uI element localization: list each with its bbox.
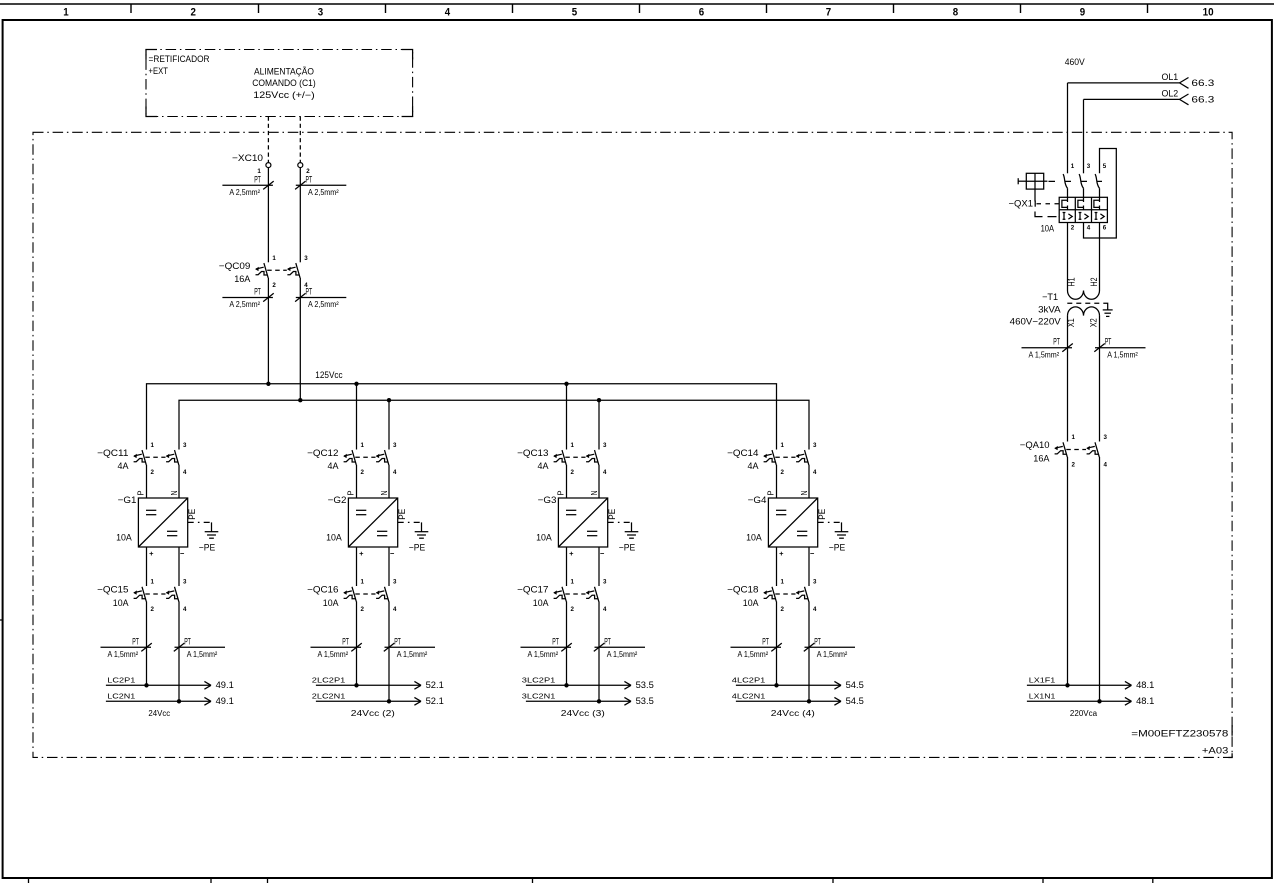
- svg-text:+EXT: +EXT: [149, 66, 169, 76]
- svg-text:1: 1: [781, 579, 785, 586]
- svg-text:4: 4: [393, 469, 397, 476]
- svg-text:4LC2P1: 4LC2P1: [732, 675, 766, 684]
- svg-text:1: 1: [1072, 434, 1076, 441]
- svg-text:X2: X2: [1089, 318, 1099, 327]
- svg-text:4: 4: [1104, 461, 1108, 468]
- svg-text:PT: PT: [254, 287, 261, 297]
- svg-text:3: 3: [318, 6, 323, 18]
- svg-text:A 1,5mm²: A 1,5mm²: [817, 650, 848, 659]
- svg-text:+A03: +A03: [1202, 745, 1228, 755]
- svg-text:3: 3: [304, 255, 308, 262]
- svg-text:1: 1: [63, 6, 68, 18]
- svg-text:PT: PT: [1053, 337, 1060, 347]
- svg-text:2: 2: [361, 469, 365, 476]
- svg-text:−QC14: −QC14: [727, 448, 758, 458]
- svg-text:125Vcc: 125Vcc: [315, 370, 343, 380]
- svg-text:1: 1: [151, 442, 155, 449]
- svg-text:66.3: 66.3: [1191, 78, 1214, 88]
- svg-text:A 1,5mm²: A 1,5mm²: [397, 650, 428, 659]
- svg-text:16A: 16A: [1033, 453, 1050, 463]
- svg-text:4: 4: [183, 606, 187, 613]
- svg-text:24Vcc (3): 24Vcc (3): [561, 709, 606, 718]
- svg-text:−: −: [180, 549, 185, 558]
- svg-text:−QC17: −QC17: [517, 585, 548, 595]
- svg-text:OL1: OL1: [1162, 72, 1179, 82]
- svg-text:49.1: 49.1: [216, 696, 234, 706]
- svg-text:2: 2: [272, 282, 276, 289]
- svg-text:−QC18: −QC18: [727, 585, 758, 595]
- svg-text:−QC11: −QC11: [97, 448, 128, 458]
- svg-text:A 1,5mm²: A 1,5mm²: [108, 650, 139, 659]
- svg-text:ALIMENTAÇÃO: ALIMENTAÇÃO: [254, 67, 314, 77]
- svg-text:−G4: −G4: [748, 495, 767, 505]
- svg-text:4: 4: [183, 469, 187, 476]
- svg-text:PT: PT: [306, 174, 313, 184]
- svg-text:PT: PT: [184, 636, 191, 646]
- svg-text:48.1: 48.1: [1136, 696, 1154, 706]
- svg-text:PT: PT: [814, 636, 821, 646]
- svg-text:PT: PT: [342, 636, 349, 646]
- svg-text:5: 5: [572, 6, 577, 18]
- svg-text:3: 3: [1087, 163, 1091, 170]
- svg-text:A 1,5mm²: A 1,5mm²: [738, 650, 769, 659]
- svg-text:A 1,5mm²: A 1,5mm²: [528, 650, 559, 659]
- svg-text:220Vca: 220Vca: [1070, 709, 1098, 718]
- svg-text:4: 4: [813, 469, 817, 476]
- svg-text:1: 1: [151, 579, 155, 586]
- svg-text:PT: PT: [762, 636, 769, 646]
- svg-text:10A: 10A: [743, 598, 760, 608]
- svg-text:10A: 10A: [326, 532, 343, 542]
- svg-text:6: 6: [699, 6, 704, 18]
- svg-text:10A: 10A: [746, 532, 763, 542]
- svg-text:4A: 4A: [538, 461, 550, 471]
- svg-text:3: 3: [393, 442, 397, 449]
- svg-text:1: 1: [361, 442, 365, 449]
- svg-text:1: 1: [571, 442, 575, 449]
- svg-text:6: 6: [1103, 225, 1107, 232]
- svg-text:66.3: 66.3: [1191, 94, 1214, 104]
- svg-text:−QC15: −QC15: [97, 585, 128, 595]
- svg-text:−PE: −PE: [199, 543, 216, 553]
- svg-text:A 1,5mm²: A 1,5mm²: [187, 650, 218, 659]
- svg-text:COMANDO (C1): COMANDO (C1): [252, 78, 316, 88]
- svg-text:8: 8: [953, 6, 958, 18]
- svg-text:3: 3: [603, 579, 607, 586]
- svg-text:−PE: −PE: [619, 543, 636, 553]
- svg-text:4: 4: [445, 6, 451, 18]
- svg-text:1: 1: [272, 255, 276, 262]
- svg-text:PT: PT: [306, 287, 313, 297]
- svg-text:24Vcc: 24Vcc: [148, 709, 170, 718]
- svg-text:4A: 4A: [328, 461, 340, 471]
- svg-text:24Vcc (2): 24Vcc (2): [351, 709, 396, 718]
- svg-text:3kVA: 3kVA: [1038, 304, 1062, 314]
- svg-text:52.1: 52.1: [426, 696, 444, 706]
- svg-text:PT: PT: [254, 174, 261, 184]
- svg-text:2: 2: [571, 606, 575, 613]
- svg-text:52.1: 52.1: [426, 680, 444, 690]
- svg-text:1: 1: [1071, 163, 1075, 170]
- svg-text:2: 2: [781, 606, 785, 613]
- svg-text:A 2,5mm²: A 2,5mm²: [229, 300, 260, 309]
- svg-text:P: P: [556, 490, 565, 495]
- svg-text:−QC12: −QC12: [307, 448, 338, 458]
- svg-text:−PE: −PE: [829, 543, 846, 553]
- svg-text:1: 1: [781, 442, 785, 449]
- svg-text:10A: 10A: [116, 532, 133, 542]
- svg-text:9: 9: [1080, 6, 1085, 18]
- svg-text:P: P: [766, 490, 775, 495]
- svg-text:A 2,5mm²: A 2,5mm²: [308, 300, 339, 309]
- svg-text:2LC2N1: 2LC2N1: [312, 691, 346, 700]
- svg-text:10A: 10A: [323, 598, 340, 608]
- svg-text:2: 2: [781, 469, 785, 476]
- svg-text:2: 2: [361, 606, 365, 613]
- svg-text:460V−220V: 460V−220V: [1010, 316, 1062, 326]
- svg-text:+: +: [149, 549, 154, 558]
- svg-text:54.5: 54.5: [846, 680, 864, 690]
- svg-text:3: 3: [603, 442, 607, 449]
- svg-text:P: P: [136, 490, 145, 495]
- svg-text:−XC10: −XC10: [232, 153, 263, 163]
- svg-text:P: P: [346, 490, 355, 495]
- svg-text:A 2,5mm²: A 2,5mm²: [229, 188, 260, 197]
- svg-text:−QC16: −QC16: [307, 585, 338, 595]
- svg-text:1: 1: [361, 579, 365, 586]
- svg-text:10A: 10A: [1041, 223, 1055, 233]
- svg-text:LX1N1: LX1N1: [1029, 691, 1056, 700]
- svg-text:PT: PT: [1105, 337, 1112, 347]
- svg-text:7: 7: [826, 6, 831, 18]
- svg-text:PE: PE: [397, 509, 407, 520]
- svg-text:−QC09: −QC09: [219, 261, 251, 271]
- svg-text:3LC2P1: 3LC2P1: [522, 675, 556, 684]
- svg-text:−T1: −T1: [1042, 292, 1058, 302]
- svg-text:N: N: [800, 490, 809, 495]
- svg-text:4: 4: [393, 606, 397, 613]
- svg-text:LX1F1: LX1F1: [1029, 675, 1056, 684]
- svg-text:2: 2: [1071, 225, 1075, 232]
- svg-text:N: N: [170, 490, 179, 495]
- svg-text:−QA10: −QA10: [1020, 440, 1050, 450]
- svg-text:3LC2N1: 3LC2N1: [522, 691, 556, 700]
- svg-text:A 1,5mm²: A 1,5mm²: [1107, 350, 1138, 359]
- svg-text:4: 4: [603, 606, 607, 613]
- svg-text:H1: H1: [1067, 277, 1077, 286]
- svg-text:PE: PE: [817, 509, 827, 520]
- svg-text:2: 2: [1072, 461, 1076, 468]
- svg-text:LC2P1: LC2P1: [107, 675, 135, 684]
- svg-text:5: 5: [1103, 163, 1107, 170]
- svg-text:10A: 10A: [536, 532, 553, 542]
- svg-text:4LC2N1: 4LC2N1: [732, 691, 766, 700]
- svg-text:−: −: [600, 549, 605, 558]
- svg-text:2LC2P1: 2LC2P1: [312, 675, 346, 684]
- svg-text:+: +: [359, 549, 364, 558]
- svg-text:−G3: −G3: [538, 495, 557, 505]
- svg-text:460V: 460V: [1065, 57, 1085, 67]
- svg-text:4: 4: [813, 606, 817, 613]
- svg-text:16A: 16A: [234, 274, 251, 284]
- svg-text:3: 3: [813, 579, 817, 586]
- svg-text:49.1: 49.1: [216, 680, 234, 690]
- svg-text:3: 3: [393, 579, 397, 586]
- svg-text:4A: 4A: [748, 461, 760, 471]
- svg-text:2: 2: [571, 469, 575, 476]
- svg-text:PE: PE: [187, 509, 197, 520]
- svg-text:A 1,5mm²: A 1,5mm²: [1029, 350, 1060, 359]
- svg-text:−QC13: −QC13: [517, 448, 548, 458]
- svg-text:10: 10: [1203, 6, 1214, 18]
- svg-text:3: 3: [183, 579, 187, 586]
- svg-text:48.1: 48.1: [1136, 680, 1154, 690]
- svg-text:2: 2: [151, 469, 155, 476]
- svg-text:10A: 10A: [113, 598, 130, 608]
- svg-text:N: N: [380, 490, 389, 495]
- svg-text:125Vcc (+/−): 125Vcc (+/−): [253, 90, 315, 100]
- svg-text:=M00EFTZ230578: =M00EFTZ230578: [1131, 728, 1228, 738]
- svg-text:PT: PT: [394, 636, 401, 646]
- svg-text:24Vcc (4): 24Vcc (4): [771, 709, 816, 718]
- svg-text:3: 3: [1104, 434, 1108, 441]
- svg-text:−QX1: −QX1: [1009, 199, 1034, 209]
- svg-text:=RETIFICADOR: =RETIFICADOR: [149, 54, 210, 64]
- svg-text:2: 2: [190, 6, 195, 18]
- svg-text:2: 2: [151, 606, 155, 613]
- svg-text:10A: 10A: [533, 598, 550, 608]
- svg-text:LC2N1: LC2N1: [107, 691, 135, 700]
- svg-text:N: N: [590, 490, 599, 495]
- svg-text:+: +: [779, 549, 784, 558]
- svg-text:4: 4: [1087, 225, 1091, 232]
- svg-text:−PE: −PE: [409, 543, 426, 553]
- svg-text:1: 1: [571, 579, 575, 586]
- svg-text:3: 3: [183, 442, 187, 449]
- svg-text:4A: 4A: [118, 461, 130, 471]
- svg-text:OL2: OL2: [1162, 88, 1179, 98]
- svg-text:PT: PT: [552, 636, 559, 646]
- svg-text:4: 4: [603, 469, 607, 476]
- svg-text:−: −: [810, 549, 815, 558]
- svg-text:A 2,5mm²: A 2,5mm²: [308, 188, 339, 197]
- svg-text:H2: H2: [1089, 277, 1099, 286]
- svg-text:53.5: 53.5: [636, 696, 654, 706]
- svg-text:3: 3: [813, 442, 817, 449]
- svg-text:PE: PE: [607, 509, 617, 520]
- svg-text:−G2: −G2: [328, 495, 347, 505]
- svg-text:A 1,5mm²: A 1,5mm²: [607, 650, 638, 659]
- svg-text:+: +: [569, 549, 574, 558]
- svg-text:A 1,5mm²: A 1,5mm²: [318, 650, 349, 659]
- svg-text:PT: PT: [132, 636, 139, 646]
- svg-text:53.5: 53.5: [636, 680, 654, 690]
- svg-text:−: −: [390, 549, 395, 558]
- svg-text:54.5: 54.5: [846, 696, 864, 706]
- svg-text:PT: PT: [604, 636, 611, 646]
- svg-text:−G1: −G1: [118, 495, 137, 505]
